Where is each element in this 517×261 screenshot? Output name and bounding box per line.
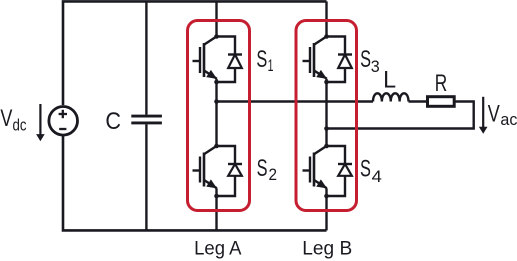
svg-text:R: R <box>435 70 447 96</box>
svg-text:dc: dc <box>12 116 26 135</box>
svg-text:2: 2 <box>268 165 277 184</box>
svg-text:ac: ac <box>500 110 517 129</box>
svg-text:Leg B: Leg B <box>302 238 352 259</box>
svg-text:S: S <box>256 46 267 73</box>
svg-text:C: C <box>105 107 121 134</box>
svg-text:1: 1 <box>268 56 274 75</box>
svg-text:V: V <box>488 101 501 127</box>
svg-text:3: 3 <box>371 57 380 76</box>
svg-text:S: S <box>360 46 371 73</box>
svg-text:S: S <box>360 155 371 182</box>
svg-text:S: S <box>257 155 268 182</box>
svg-text:Leg A: Leg A <box>194 238 242 260</box>
svg-text:4: 4 <box>372 167 382 186</box>
svg-text:L: L <box>383 67 396 93</box>
svg-text:V: V <box>0 106 13 132</box>
